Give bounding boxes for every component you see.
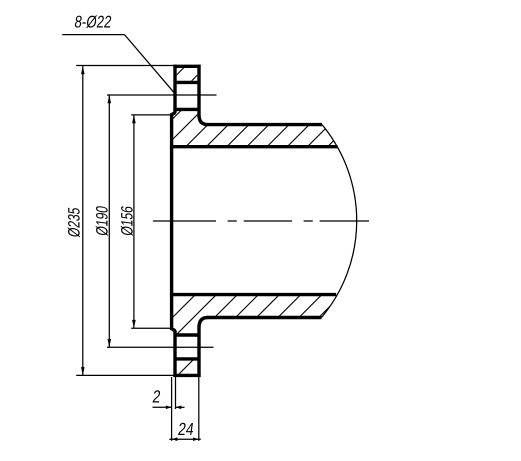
dim 156 extension lines bbox=[131, 115, 171, 328]
dim 24 line bbox=[169, 438, 201, 440]
dim 2 extension lines bbox=[172, 377, 176, 441]
leader 8-o22 bbox=[62, 35, 175, 95]
bolt hole top line bbox=[175, 81, 199, 84]
dim 190 line bbox=[108, 95, 110, 347]
outer fillet top bbox=[199, 116, 207, 125]
tube inner bottom line bbox=[170, 293, 336, 296]
dim 235 line bbox=[82, 66, 84, 375]
boss right vertical bbox=[197, 65, 200, 117]
dim 2 line bbox=[153, 406, 185, 408]
tube outer bottom line bbox=[207, 316, 322, 319]
svg-text:8-Ø22: 8-Ø22 bbox=[73, 13, 112, 32]
dim 235 extension lines bbox=[76, 66, 173, 376]
dim 156 line bbox=[133, 115, 135, 328]
hatch bottom-boss lower square bbox=[170, 355, 198, 383]
dim 24 extension line right bbox=[198, 377, 200, 441]
top edge bbox=[173, 65, 200, 68]
hatch top hub and tube wall bbox=[142, 100, 395, 150]
raised face front vertical bbox=[170, 113, 173, 330]
boss left vertical bbox=[173, 65, 176, 113]
flange bottom boss outline bbox=[172, 318, 208, 378]
tube outer top line bbox=[207, 123, 322, 126]
svg-text:Ø235: Ø235 bbox=[66, 206, 84, 238]
center line bbox=[153, 220, 369, 222]
svg-text:Ø156: Ø156 bbox=[119, 205, 137, 237]
spherical head arc bbox=[322, 125, 357, 318]
tube inner top line bbox=[170, 145, 337, 148]
bolt hole bottom line bbox=[175, 108, 199, 111]
flange top boss outline bbox=[172, 65, 208, 125]
svg-text:Ø190: Ø190 bbox=[94, 205, 112, 237]
step to raised face bbox=[172, 111, 175, 114]
hatch bottom hub and tube wall bbox=[129, 280, 356, 340]
dim 190 extension lines (bolt circle) bbox=[107, 95, 217, 347]
svg-text:24: 24 bbox=[177, 421, 195, 440]
